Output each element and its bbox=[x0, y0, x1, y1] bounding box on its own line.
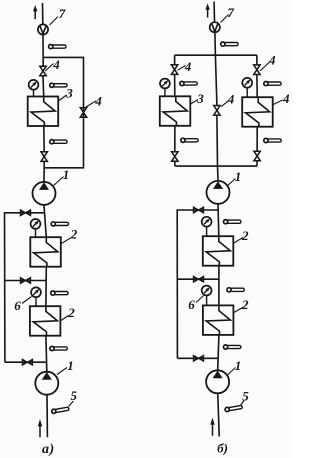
svg-text:4: 4 bbox=[94, 94, 102, 109]
svg-text:5: 5 bbox=[242, 389, 249, 404]
svg-text:б): б) bbox=[217, 440, 228, 455]
svg-text:4: 4 bbox=[282, 91, 290, 106]
svg-text:2: 2 bbox=[67, 305, 75, 320]
svg-text:2: 2 bbox=[241, 297, 249, 312]
svg-text:1: 1 bbox=[235, 169, 242, 184]
svg-text:4: 4 bbox=[52, 57, 60, 72]
svg-text:7: 7 bbox=[59, 6, 66, 21]
svg-text:4: 4 bbox=[184, 59, 192, 74]
svg-text:4: 4 bbox=[227, 91, 235, 106]
svg-text:1: 1 bbox=[63, 167, 70, 182]
svg-text:2: 2 bbox=[70, 227, 78, 242]
svg-text:7: 7 bbox=[227, 5, 234, 20]
svg-text:1: 1 bbox=[235, 358, 242, 373]
svg-text:6: 6 bbox=[188, 297, 195, 312]
svg-text:6: 6 bbox=[14, 298, 21, 313]
svg-text:4: 4 bbox=[268, 53, 276, 68]
svg-text:5: 5 bbox=[71, 388, 78, 403]
svg-text:3: 3 bbox=[65, 86, 73, 101]
svg-text:2: 2 bbox=[241, 228, 249, 243]
svg-text:3: 3 bbox=[196, 91, 204, 106]
svg-text:1: 1 bbox=[67, 358, 74, 373]
svg-text:а): а) bbox=[42, 442, 55, 457]
